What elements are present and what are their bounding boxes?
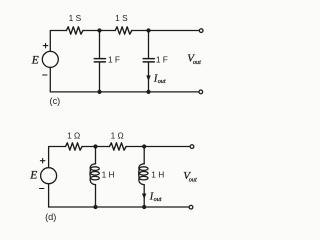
terminal top output (c)	[199, 29, 203, 33]
current arrow Iout (c)	[146, 75, 150, 81]
label Vout (c)	[187, 52, 201, 66]
inductor L1 1 H	[90, 164, 99, 185]
svg-text:1 F: 1 F	[108, 54, 120, 64]
resistor R1 (d) 1 ohm	[66, 143, 83, 150]
svg-text:1 Ω: 1 Ω	[111, 130, 124, 140]
wire (d) L2 branch upper	[143, 147, 145, 164]
minus polarity mark (c)	[43, 74, 47, 76]
minus polarity mark (d)	[40, 188, 44, 190]
wire (d) L1 branch upper	[95, 147, 97, 164]
wire (c) source bottom to bottom rail	[49, 67, 51, 92]
svg-text:out: out	[193, 59, 201, 66]
terminal bottom output (c)	[199, 90, 203, 94]
svg-text:(d): (d)	[45, 212, 56, 222]
capacitor C1 1 F	[94, 59, 105, 62]
voltage source E (d)	[41, 168, 57, 184]
svg-text:1 F: 1 F	[156, 54, 168, 64]
resistor R2 (d) 1 ohm	[110, 143, 127, 150]
resistor R1 (c) 1 S	[66, 27, 83, 34]
label Vout (d)	[183, 170, 197, 184]
svg-text:out: out	[154, 196, 162, 203]
node junction dot bottom of L1	[93, 205, 97, 209]
wire (d) R2 to output terminal	[126, 146, 190, 148]
node junction dot bottom of C2	[146, 90, 150, 94]
wire (c) C2 branch upper	[148, 31, 150, 58]
capacitor C2 1 F	[143, 59, 154, 62]
wire (c) source top to R1	[50, 31, 66, 52]
svg-text:E: E	[31, 55, 39, 67]
node junction dot top of L2	[142, 144, 146, 148]
inductor L2 1 H	[139, 164, 148, 185]
node junction dot top of C2	[146, 28, 150, 32]
node junction dot top of L1	[93, 144, 97, 148]
svg-text:out: out	[189, 177, 197, 184]
plus polarity mark (d)	[40, 159, 45, 164]
wire (d) source bottom to bottom rail	[48, 184, 50, 207]
svg-text:1 S: 1 S	[115, 13, 128, 23]
svg-text:1 H: 1 H	[151, 170, 164, 180]
node junction dot bottom of C1	[97, 90, 101, 94]
resistor R2 (c) 1 S	[115, 27, 132, 34]
wire (d) source top to R1	[49, 147, 66, 168]
terminal bottom output (d)	[189, 205, 193, 209]
wire (c) R2 to output terminal	[132, 30, 199, 32]
node junction dot top of C1	[97, 28, 101, 32]
wire (c) C1 branch lower	[99, 63, 101, 92]
node junction dot bottom of L2	[142, 205, 146, 209]
wire (c) bottom rail	[50, 91, 198, 93]
svg-text:(c): (c)	[50, 96, 61, 106]
wire (d) bottom rail	[49, 206, 189, 208]
wire (d) L1 branch lower	[95, 185, 97, 207]
wire (d) L2 branch lower with current arrow	[143, 185, 145, 207]
label Iout (c)	[153, 73, 166, 85]
svg-text:out: out	[158, 78, 166, 85]
svg-text:E: E	[29, 169, 37, 181]
wire (d) R1 to R2	[82, 146, 109, 148]
label Iout (d)	[149, 191, 162, 203]
svg-text:1 H: 1 H	[102, 170, 115, 180]
plus polarity mark (c)	[43, 43, 48, 48]
svg-text:1 S: 1 S	[69, 13, 82, 23]
wire (c) C1 branch upper	[99, 31, 101, 58]
terminal top output (d)	[190, 145, 194, 149]
svg-text:1 Ω: 1 Ω	[67, 130, 80, 140]
wire (c) C2 branch lower with current arrow	[148, 63, 150, 92]
current arrow Iout (d)	[142, 194, 146, 200]
voltage source E (c)	[42, 51, 58, 67]
wire (c) R1 to R2	[83, 30, 115, 32]
